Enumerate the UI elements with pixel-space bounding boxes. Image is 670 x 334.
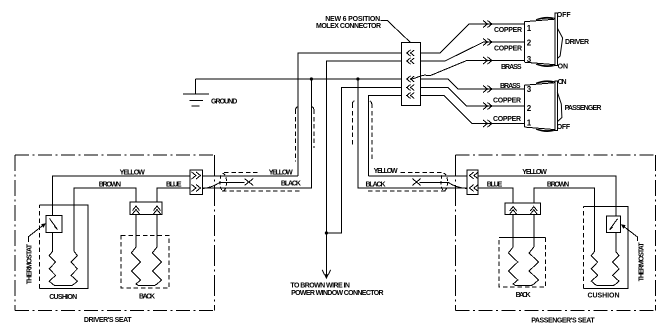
svg-text:3: 3 [527, 55, 532, 64]
molex pin 5 contact chevrons [407, 93, 415, 99]
svg-text:COPPER: COPPER [494, 27, 522, 34]
svg-text:CUSHION: CUSHION [588, 293, 620, 300]
driver thermostat box [46, 216, 62, 233]
svg-text:COPPER: COPPER [493, 98, 521, 105]
svg-text:BLACK: BLACK [366, 181, 386, 188]
chevron marks on driver pin1 wire [483, 21, 492, 28]
left cable jacket (dashed) [222, 106, 314, 191]
passenger back connector chevrons pos1 [510, 207, 517, 215]
wire: passenger yellow cable run to connector [369, 175, 467, 177]
passenger cushion heating element (resistor) [591, 247, 619, 285]
passenger cushion pad box [584, 207, 629, 289]
chevron marks on driver pin2 wire [483, 39, 492, 46]
driver back connector [130, 202, 162, 215]
svg-text:BRASS: BRASS [500, 83, 521, 90]
wire: passenger back connector to elements [513, 215, 534, 248]
svg-text:TO BROWN WIRE IN: TO BROWN WIRE IN [290, 282, 350, 289]
wire: ground bus to molex pin3 [196, 78, 402, 80]
wire: molex pin3 to passenger switch pin3 (brass) [421, 79, 525, 89]
wire: passenger brown bus [534, 188, 595, 247]
svg-text:BRASS: BRASS [501, 64, 522, 71]
driver back pad box (dashed) [121, 236, 169, 289]
wire: driver brown bus [74, 188, 136, 247]
driver thermostat leader arrow [28, 225, 44, 243]
passenger back connector chevrons pos2 [530, 207, 537, 215]
wire: molex pin5 down to passenger yellow [369, 96, 402, 177]
driver switch S1 body [525, 13, 563, 66]
wire: right black from ground tap down to passenger connector [358, 79, 467, 188]
svg-text:2: 2 [527, 104, 532, 113]
chevron marks on driver pin3 wire [483, 57, 492, 64]
driver connector pos2 chevrons [192, 185, 201, 192]
node: junction dot left black tap [310, 77, 313, 80]
twist mark X (right cable) [412, 179, 420, 186]
molex connector J1 [402, 43, 421, 106]
wire: molex pin1 down to driver yellow (vertical x298) [298, 53, 402, 176]
driver seat dashed enclosure [15, 155, 215, 311]
driver connector pos1 chevrons [192, 172, 201, 179]
passenger back heating element (resistor) [508, 247, 538, 285]
svg-text:ON: ON [558, 79, 567, 86]
svg-text:THERMOSTAT: THERMOSTAT [639, 242, 646, 282]
svg-text:OFF: OFF [557, 12, 572, 19]
wire: molex pin2 to driver switch pin2 [421, 42, 525, 61]
svg-text:DRIVER'S SEAT: DRIVER'S SEAT [84, 317, 132, 324]
passenger thermostat leader arrow [623, 226, 638, 242]
svg-text:BROWN: BROWN [547, 181, 569, 188]
svg-text:PASSENGER'S SEAT: PASSENGER'S SEAT [531, 317, 595, 324]
svg-text:BLUE: BLUE [166, 181, 182, 188]
driver cushion heating element (resistor) [49, 247, 77, 285]
node: junction dot right black tap [356, 77, 359, 80]
svg-text:BLUE: BLUE [487, 181, 503, 188]
svg-text:YELLOW: YELLOW [522, 169, 547, 176]
molex pin 2 contact chevrons [407, 58, 415, 64]
wire: molex pin5 to passenger switch pin1 [421, 96, 525, 124]
svg-text:3: 3 [527, 85, 532, 94]
svg-text:1: 1 [527, 118, 532, 127]
twist mark X (left cable) [245, 179, 254, 186]
leader line to molex connector [381, 21, 411, 43]
driver cushion pad box [40, 205, 89, 289]
passenger thermostat contact [610, 219, 618, 230]
wire: left black from ground tap down to driver connector [203, 79, 312, 188]
wire: molex pin2 down to power feed join [326, 61, 401, 270]
svg-text:OFF: OFF [557, 124, 571, 131]
wire: passenger thermostat to cushion element [615, 232, 617, 247]
molex pin 4 contact chevrons [407, 85, 415, 91]
passenger seat connector P2 [467, 170, 478, 195]
svg-text:BLACK: BLACK [281, 180, 301, 187]
svg-text:BACK: BACK [139, 293, 155, 300]
wire: driver yellow inside seat [52, 176, 190, 216]
right cable drain wire with twist [419, 182, 467, 188]
wire: driver blue wire [157, 188, 190, 202]
wire: back connector to back elements [136, 215, 157, 248]
passenger connector pos2 chevrons [469, 185, 478, 192]
right cable mouth ellipse [441, 174, 448, 191]
chevron marks on passenger pin1 wire [483, 120, 492, 127]
wire: molex pin4 down to power feed join [326, 88, 401, 234]
passenger thermostat box [607, 216, 621, 233]
svg-text:BACK: BACK [516, 292, 531, 299]
molex pin 3 contact chevrons [407, 76, 415, 82]
driver back connector chevrons pos2 [154, 206, 161, 214]
wire: passenger blue wire [478, 188, 513, 203]
svg-text:MOLEX CONNECTOR: MOLEX CONNECTOR [316, 23, 381, 30]
wire: molex pin4 to passenger switch pin2 [421, 88, 525, 107]
svg-text:BROWN: BROWN [99, 181, 121, 188]
svg-text:YELLOW: YELLOW [120, 169, 146, 176]
driver seat connector P1 [190, 170, 203, 195]
passenger back connector [505, 203, 541, 215]
chevron marks on passenger pin3 wire [483, 86, 492, 93]
ground symbol [183, 79, 209, 106]
svg-text:CUSHION: CUSHION [49, 294, 77, 301]
molex pin 1 contact chevrons [407, 50, 415, 56]
wire: passenger yellow inside seat [478, 176, 616, 216]
driver thermostat contact [50, 219, 58, 230]
svg-text:2: 2 [527, 39, 532, 48]
svg-text:YELLOW: YELLOW [374, 168, 398, 175]
wire: molex pin1 to driver switch pin1 [421, 24, 525, 53]
svg-text:PASSENGER: PASSENGER [565, 105, 602, 112]
svg-text:1: 1 [527, 24, 532, 33]
driver back connector chevrons pos1 [133, 206, 140, 214]
passenger seat dashed enclosure [456, 155, 656, 311]
node: junction dot power feed join [325, 231, 328, 234]
driver back heating element (resistor) [131, 247, 161, 285]
passenger back pad box [499, 238, 546, 288]
svg-text:COPPER: COPPER [494, 46, 522, 53]
chevron marks on passenger pin2 wire [483, 103, 492, 110]
svg-text:THERMOSTAT: THERMOSTAT [27, 243, 34, 284]
svg-text:ON: ON [558, 63, 569, 70]
svg-text:DRIVER: DRIVER [565, 39, 589, 46]
wire: molex pin3 to driver switch pin3 (brass) [411, 61, 525, 80]
svg-text:GROUND: GROUND [211, 99, 237, 106]
svg-text:COPPER: COPPER [493, 116, 521, 123]
left cable mouth ellipse [220, 174, 227, 191]
wire: driver yellow cable run to connector [203, 175, 299, 177]
svg-text:POWER WINDOW CONNECTOR: POWER WINDOW CONNECTOR [291, 290, 384, 297]
right cable jacket (dashed) [352, 100, 446, 191]
arrow head to brown wire [325, 270, 327, 276]
left cable drain wire with twist [203, 182, 245, 188]
passenger connector pos1 chevrons [469, 172, 478, 179]
passenger switch S2 body [525, 81, 562, 132]
svg-text:YELLOW: YELLOW [269, 169, 293, 176]
wire: thermostat to cushion element [51, 233, 53, 248]
